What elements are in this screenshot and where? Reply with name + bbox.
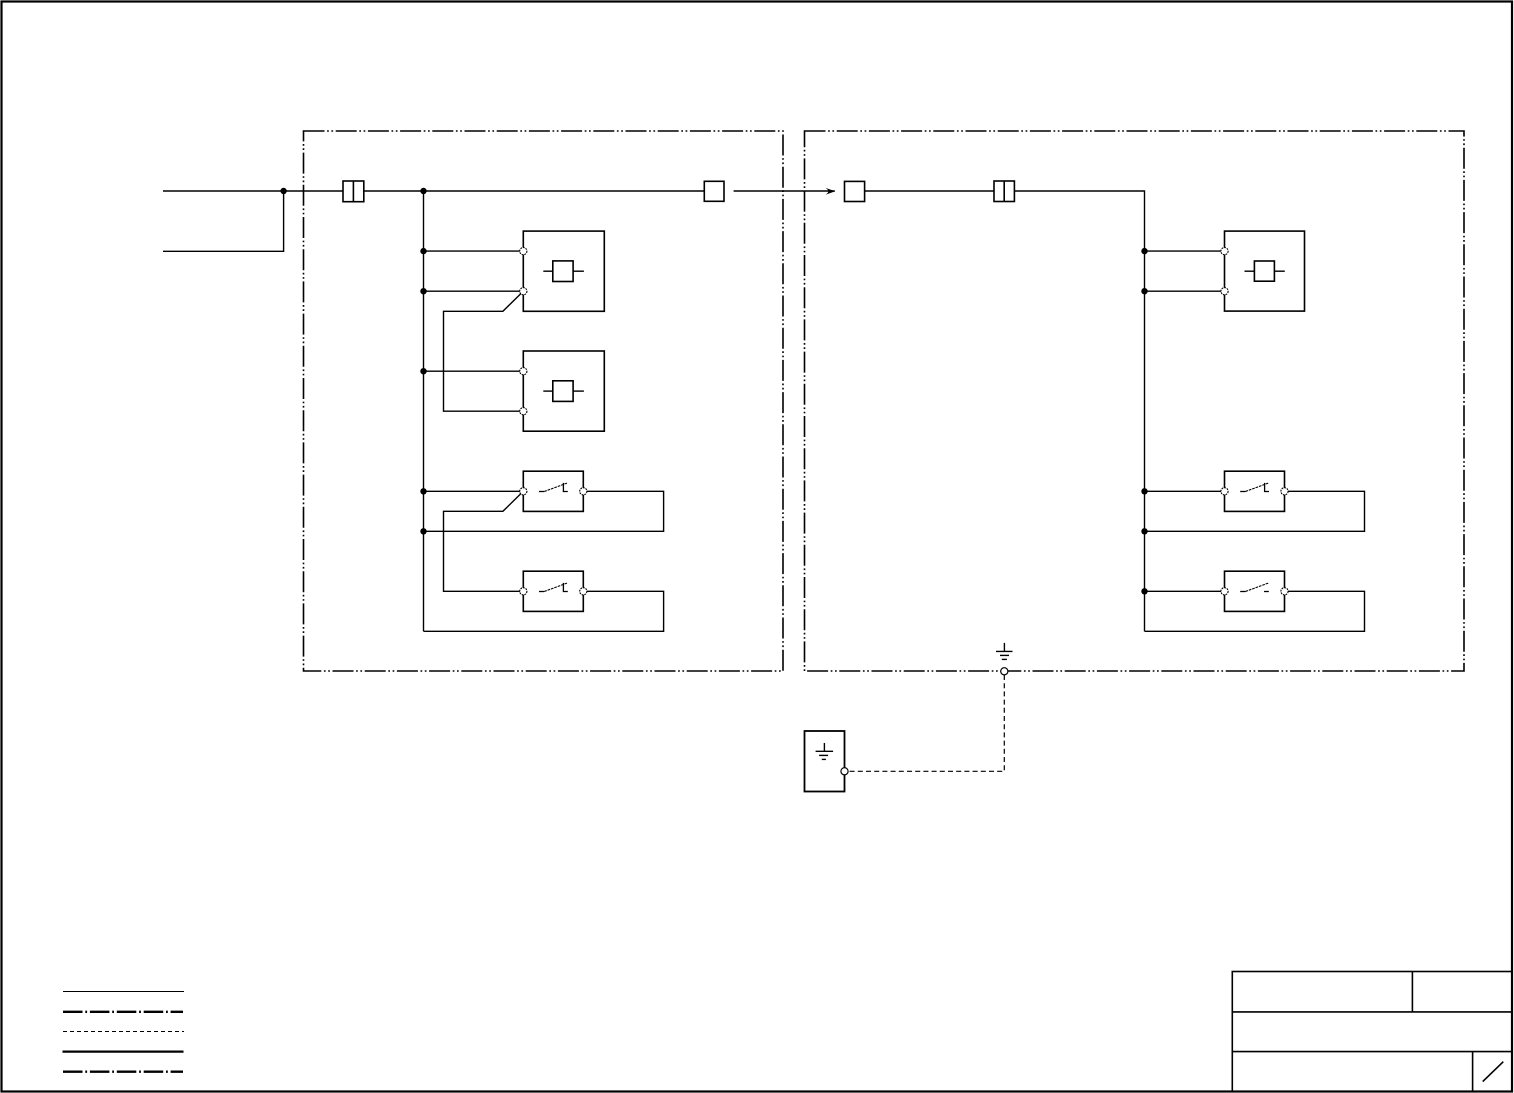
wire S1 return loop (424, 491, 664, 531)
wire tap to switch S1 (424, 490, 524, 492)
enclosure (left cabinet) dash-dot-dot border (304, 131, 784, 671)
pin S1:1 (520, 488, 527, 495)
wire tap to switch S3 (1145, 490, 1225, 492)
wire right bus horizontal + vertical (1014, 191, 1144, 631)
pin S1:2 (580, 488, 587, 495)
wire tap to K1 coil bottom (424, 290, 524, 292)
relay K2 (left, with coil symbol) (523, 351, 604, 431)
arrowhead (825, 188, 835, 195)
pin K1:A1 (520, 248, 527, 255)
wire PE dashed link (848, 675, 1004, 771)
pin S4:2 (1281, 588, 1288, 595)
legend line 3 thin dashed (63, 1031, 184, 1033)
earth electrode box (805, 731, 845, 792)
wire tap to K2 coil top (424, 370, 524, 372)
legend line 4 thick solid (63, 1050, 184, 1052)
wire main bus to connector X1 (284, 190, 343, 192)
wire inter-cabinet link with arrow (734, 190, 835, 192)
relay K1 (left, with coil symbol) (523, 231, 604, 311)
node PE terminal on enclosure (1001, 668, 1008, 675)
terminal box (left enclosure exit) (704, 181, 724, 201)
pin K3:A1 (1221, 248, 1228, 255)
pin earth box terminal (841, 768, 848, 775)
node junction B (420, 188, 426, 194)
node junction A (280, 188, 286, 194)
connector X2 (994, 181, 1014, 202)
wire connector X1 to terminal box (364, 190, 705, 192)
ground (cabinet earth symbol) (996, 643, 1013, 660)
title block (1232, 972, 1512, 1092)
legend line 5 thick dash-dot (63, 1071, 183, 1073)
wire tap to K3 coil top (1145, 250, 1225, 252)
legend line 1 thin solid (63, 991, 184, 993)
wire S1 left to S2 left (444, 491, 524, 591)
wire S3 return loop (1145, 491, 1365, 531)
wire L2 incoming bottom (163, 191, 284, 251)
legend line 2 thick dash-dot (63, 1011, 183, 1013)
pin K2:A1 (520, 368, 527, 375)
pin S2:2 (580, 588, 587, 595)
switch S3 (right, timed contact) (1225, 471, 1285, 511)
switch S1 (left, timed contact) (523, 471, 583, 511)
wire tap to K1 coil top (424, 250, 524, 252)
switch S4 (right, plain NO contact) (1225, 571, 1285, 611)
wire tap to K3 coil bottom (1145, 290, 1225, 292)
switch S2 (left, timed contact) (523, 571, 583, 611)
pin S3:2 (1281, 488, 1288, 495)
pin K1:A2 (520, 288, 527, 295)
terminal box (right enclosure entry) (845, 181, 865, 201)
wire K1 bottom to K2 bottom (444, 291, 524, 411)
pin K2:A2 (520, 408, 527, 415)
connector X1 (343, 181, 364, 202)
pin S2:1 (520, 588, 527, 595)
wire L1 incoming top (163, 190, 284, 192)
wire S2 return loop (424, 591, 664, 631)
wire left bus vertical (423, 191, 425, 631)
wire to connector X2 (865, 190, 994, 192)
wire S4 return loop (1145, 591, 1365, 631)
relay K3 (right, with coil symbol) (1225, 231, 1305, 311)
enclosure (right cabinet) dash-dot-dot border (805, 131, 1465, 671)
pin S3:1 (1221, 488, 1228, 495)
pin K3:A2 (1221, 288, 1228, 295)
wire tap to switch S4 (1145, 590, 1225, 592)
pin S4:1 (1221, 588, 1228, 595)
